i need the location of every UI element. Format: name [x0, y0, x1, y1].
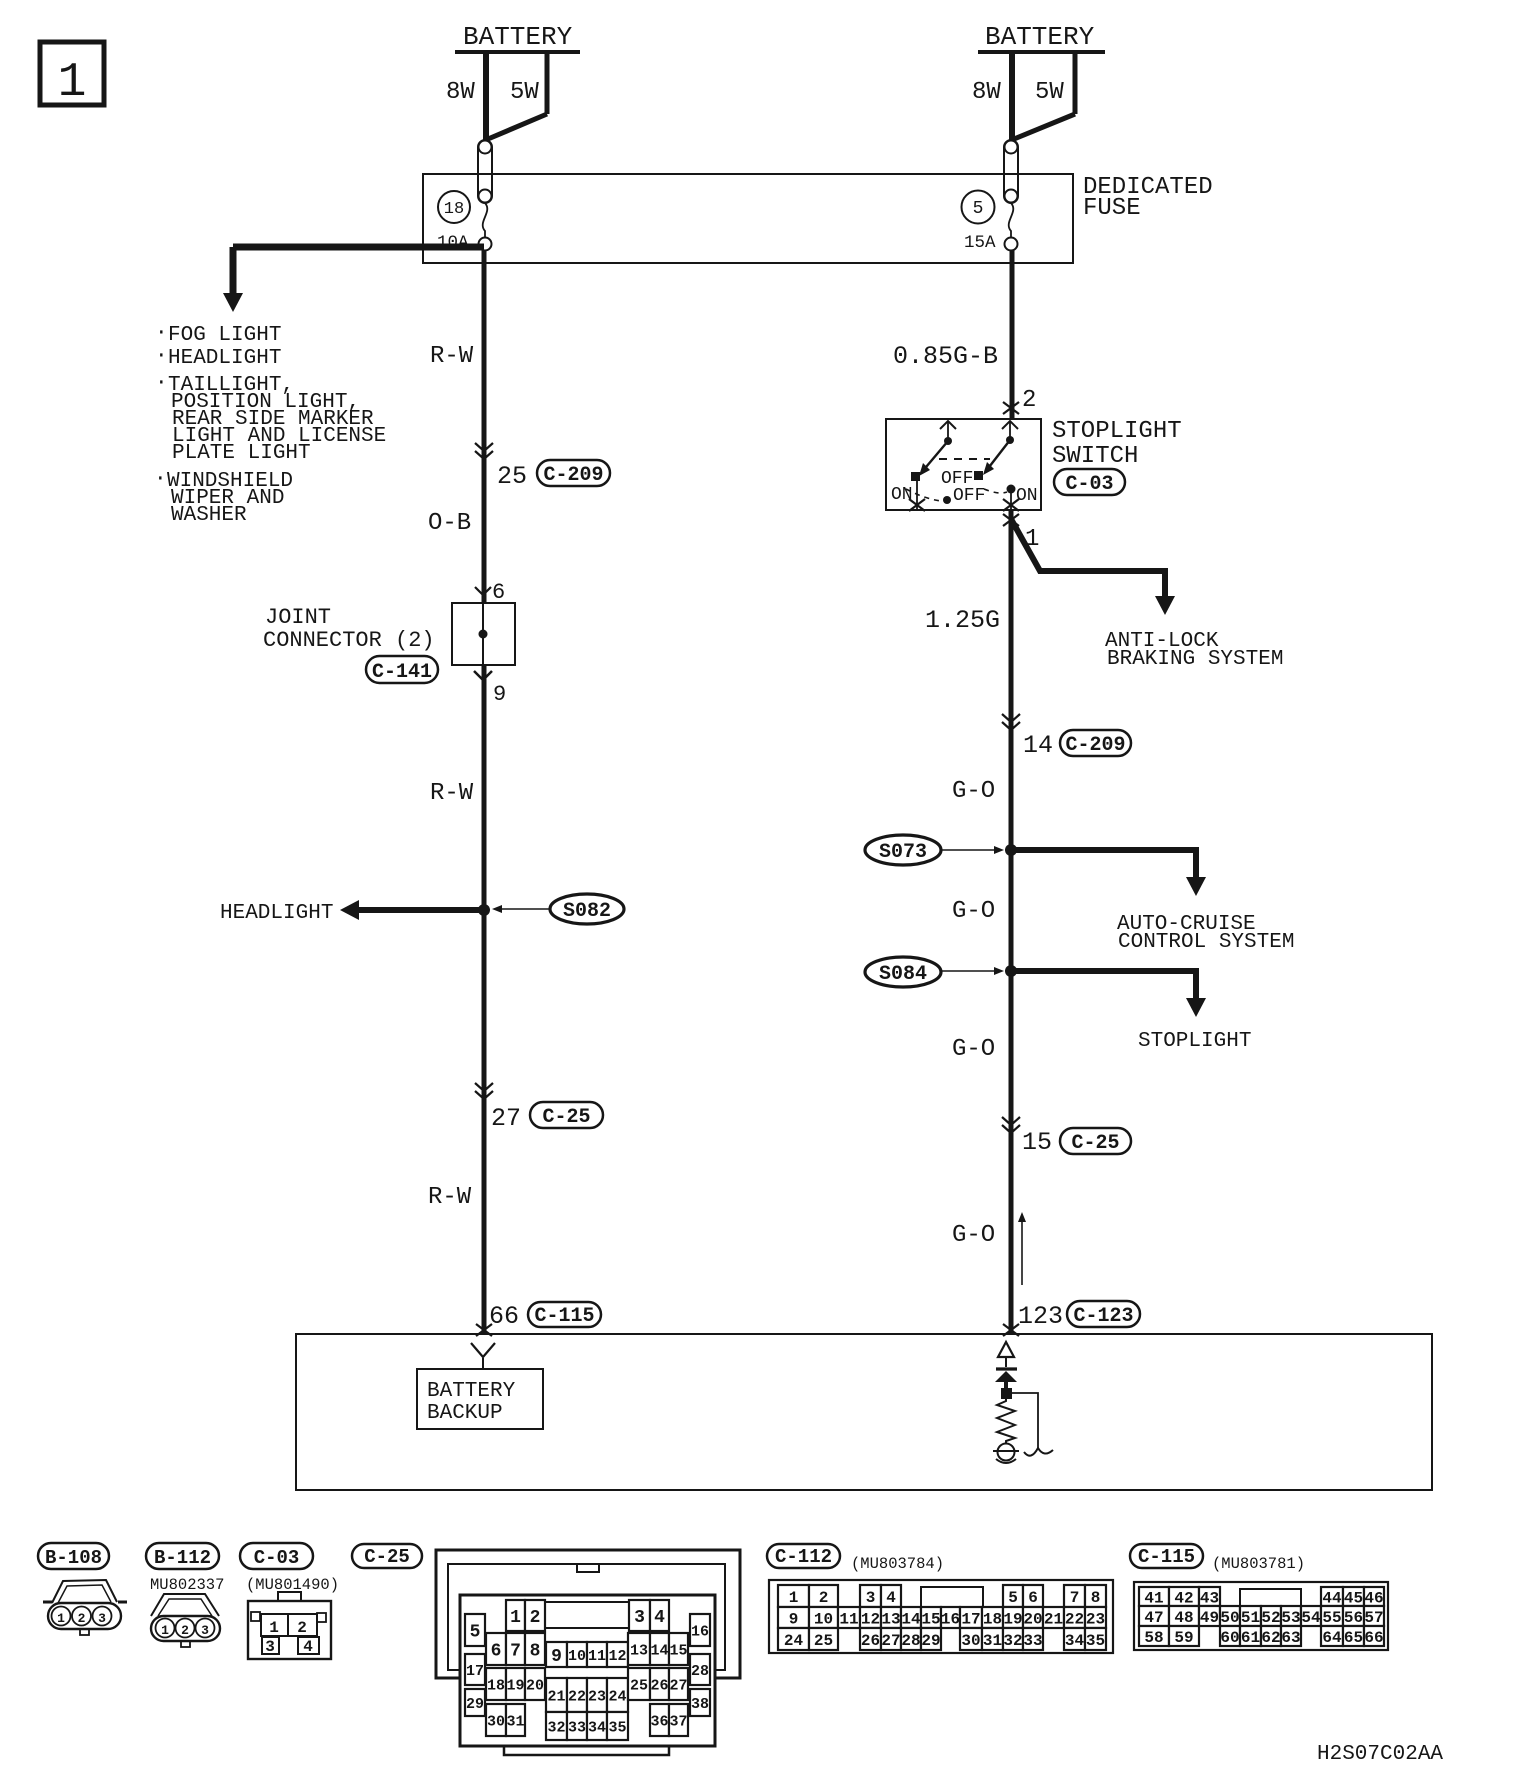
svg-text:25: 25 [814, 1632, 833, 1650]
left main wire R-W upper [482, 250, 487, 603]
svg-text:9: 9 [493, 682, 506, 707]
svg-text:9: 9 [789, 1610, 799, 1628]
svg-text:1: 1 [57, 1611, 65, 1626]
switch left pole contact [940, 421, 956, 429]
pointer arrow from S084 to splice [942, 970, 996, 972]
svg-text:CONTROL SYSTEM: CONTROL SYSTEM [1118, 931, 1294, 954]
svg-text:62: 62 [1261, 1629, 1280, 1647]
svg-text:14: 14 [1023, 731, 1053, 760]
svg-text:48: 48 [1174, 1609, 1193, 1627]
svg-text:45: 45 [1344, 1589, 1363, 1607]
C-25 pin 28 [690, 1654, 710, 1685]
right main wire 1.25G [1009, 510, 1014, 1334]
svg-text:17: 17 [466, 1663, 484, 1680]
switch right pole contact [1002, 421, 1018, 429]
svg-text:H2S07C02AA: H2S07C02AA [1317, 1743, 1443, 1766]
svg-text:15: 15 [1022, 1128, 1052, 1157]
right fusible link and fuse 5 element [1004, 140, 1018, 203]
control unit box [296, 1334, 1432, 1490]
dedicated fuse box [423, 174, 1073, 263]
direction arrow up on right wire [1021, 1220, 1023, 1285]
left 5W fusible-link wire [545, 52, 550, 114]
svg-text:37: 37 [669, 1713, 687, 1730]
svg-text:31: 31 [983, 1632, 1002, 1650]
input triangle at 123 [998, 1342, 1014, 1357]
resistor R1 [997, 1396, 1015, 1444]
svg-text:WASHER: WASHER [171, 504, 247, 527]
svg-text:8: 8 [530, 1641, 541, 1661]
svg-text:23: 23 [1086, 1610, 1105, 1628]
svg-text:14: 14 [650, 1642, 668, 1659]
svg-text:S082: S082 [563, 900, 611, 923]
branch wire to auto-cruise control system [1011, 850, 1196, 878]
svg-text:5: 5 [470, 1622, 481, 1642]
left battery bus bar [455, 50, 580, 54]
svg-text:8W: 8W [446, 79, 475, 106]
node junction dot [1001, 1388, 1012, 1399]
connector view C-112 grid [769, 1580, 1113, 1653]
svg-text:FUSE: FUSE [1083, 195, 1141, 222]
connector view C-25 body [460, 1595, 715, 1746]
svg-text:JOINT: JOINT [265, 605, 331, 630]
connector chevron 27 [475, 1083, 493, 1091]
svg-text:10: 10 [568, 1648, 586, 1665]
svg-text:3: 3 [265, 1638, 275, 1656]
svg-text:OFF: OFF [953, 486, 985, 506]
svg-text:27: 27 [881, 1632, 900, 1650]
svg-text:B-108: B-108 [45, 1547, 102, 1569]
svg-text:28: 28 [901, 1632, 920, 1650]
svg-text:FOG LIGHT: FOG LIGHT [168, 324, 281, 347]
connector fork into battery backup [471, 1343, 495, 1357]
svg-text:35: 35 [608, 1719, 626, 1736]
svg-text:11: 11 [588, 1648, 606, 1665]
svg-text:61: 61 [1241, 1629, 1260, 1647]
svg-text:51: 51 [1241, 1609, 1260, 1627]
svg-text:42: 42 [1174, 1589, 1193, 1607]
svg-text:31: 31 [506, 1713, 524, 1730]
svg-text:12: 12 [608, 1648, 626, 1665]
svg-text:12: 12 [861, 1610, 880, 1628]
svg-text:C-209: C-209 [543, 464, 603, 487]
svg-text:C-25: C-25 [542, 1106, 590, 1129]
switch middle position dot [943, 496, 951, 504]
svg-text:58: 58 [1144, 1629, 1163, 1647]
svg-text:66: 66 [1364, 1629, 1383, 1647]
svg-text:B-112: B-112 [154, 1547, 211, 1569]
svg-text:2: 2 [819, 1589, 829, 1607]
splice S084 junction dot [1005, 965, 1017, 977]
connector ref B-108 [38, 1543, 109, 1569]
svg-text:56: 56 [1344, 1609, 1363, 1627]
svg-text:15: 15 [921, 1610, 940, 1628]
svg-text:60: 60 [1220, 1629, 1239, 1647]
svg-text:34: 34 [588, 1719, 606, 1736]
svg-text:65: 65 [1344, 1629, 1363, 1647]
ground symbol [998, 1444, 1015, 1461]
svg-text:49: 49 [1200, 1609, 1219, 1627]
svg-text:28: 28 [691, 1663, 709, 1680]
svg-text:C-25: C-25 [364, 1546, 410, 1568]
svg-text:1: 1 [789, 1589, 799, 1607]
svg-text:55: 55 [1322, 1609, 1341, 1627]
svg-text:19: 19 [1003, 1610, 1022, 1628]
battery backup box [417, 1369, 543, 1429]
left fusible link and fuse 18 element [478, 140, 492, 203]
connector mark at 123 [1003, 1324, 1019, 1336]
svg-text:C-03: C-03 [254, 1547, 300, 1569]
switch right lower contact [1007, 485, 1016, 494]
svg-text:0.85G-B: 0.85G-B [893, 342, 998, 371]
C-25 pin 17 [465, 1654, 485, 1685]
svg-text:1: 1 [58, 56, 87, 110]
svg-text:ON: ON [1016, 486, 1038, 506]
svg-text:15A: 15A [964, 233, 996, 253]
fuse number 5 [962, 191, 995, 224]
connector chevron 15 [1002, 1117, 1020, 1125]
svg-text:7: 7 [510, 1641, 521, 1661]
stoplight switch box C-03 [886, 419, 1041, 510]
svg-text:53: 53 [1281, 1609, 1300, 1627]
svg-text:63: 63 [1281, 1629, 1300, 1647]
svg-text:18: 18 [487, 1677, 505, 1694]
svg-text:BATTERY: BATTERY [985, 22, 1095, 52]
svg-text:11: 11 [839, 1610, 858, 1628]
svg-text:13: 13 [630, 1642, 648, 1659]
branch wire to anti-lock braking system [1011, 519, 1165, 598]
svg-text:·: · [155, 322, 168, 345]
connector chevron 25 [475, 443, 493, 451]
svg-text:5W: 5W [510, 79, 539, 106]
switch mechanical dashed link [939, 458, 990, 460]
svg-text:4: 4 [654, 1608, 665, 1628]
svg-text:R-W: R-W [428, 1184, 472, 1211]
svg-text:8W: 8W [972, 79, 1001, 106]
left 8W fusible-link wire [483, 52, 489, 140]
svg-text:3: 3 [866, 1589, 876, 1607]
svg-text:22: 22 [568, 1688, 586, 1705]
wire branch from fuse 18 to light systems [233, 244, 484, 251]
svg-text:BATTERY: BATTERY [427, 1380, 516, 1403]
svg-text:3: 3 [634, 1608, 645, 1628]
svg-text:8: 8 [1091, 1589, 1101, 1607]
svg-text:SWITCH: SWITCH [1052, 443, 1138, 470]
connector ref C-209 right [1060, 730, 1131, 756]
svg-text:C-112: C-112 [775, 1546, 832, 1568]
svg-text:G-O: G-O [952, 898, 995, 925]
svg-text:34: 34 [1065, 1632, 1085, 1650]
connector mark at pin 1 [1003, 514, 1019, 526]
svg-text:16: 16 [691, 1623, 709, 1640]
splice S082 junction dot [478, 904, 490, 916]
connector ref C-03 view label [240, 1543, 313, 1569]
svg-text:6: 6 [491, 1641, 502, 1661]
svg-text:1: 1 [161, 1623, 169, 1638]
svg-text:24: 24 [784, 1632, 804, 1650]
svg-text:HEADLIGHT: HEADLIGHT [168, 347, 281, 370]
pin 9 out of joint connector [474, 671, 492, 680]
svg-text:6: 6 [492, 580, 505, 605]
svg-text:18: 18 [983, 1610, 1002, 1628]
svg-text:G-O: G-O [952, 1222, 995, 1249]
svg-text:36: 36 [650, 1713, 668, 1730]
svg-text:17: 17 [961, 1610, 980, 1628]
right battery bus bar [978, 50, 1105, 54]
svg-text:C-115: C-115 [534, 1305, 594, 1328]
switch right bottom mark [1003, 499, 1019, 511]
svg-text:57: 57 [1364, 1609, 1383, 1627]
svg-text:43: 43 [1200, 1589, 1219, 1607]
connector view C-25 shell [436, 1550, 740, 1678]
svg-text:25: 25 [630, 1677, 648, 1694]
svg-text:38: 38 [691, 1696, 709, 1713]
svg-text:50: 50 [1220, 1609, 1239, 1627]
svg-text:9: 9 [551, 1647, 562, 1667]
C-25 pin 29 [465, 1689, 485, 1716]
svg-text:2: 2 [1022, 387, 1036, 414]
connector mark at 66 [476, 1324, 492, 1336]
connector ref C-25 view label [352, 1544, 422, 1568]
svg-text:G-O: G-O [952, 1036, 995, 1063]
svg-text:33: 33 [568, 1719, 586, 1736]
svg-text:47: 47 [1144, 1609, 1163, 1627]
fuse number 18 [438, 191, 470, 223]
arrow to stoplight [1186, 998, 1206, 1017]
switch left bottom mark [909, 499, 925, 511]
svg-text:BATTERY: BATTERY [463, 22, 573, 52]
connector view B-112 [151, 1594, 219, 1616]
arrow to anti-lock braking system [1155, 596, 1175, 615]
pin 6 into joint connector [475, 587, 491, 595]
svg-text:18: 18 [444, 200, 464, 219]
svg-text:STOPLIGHT: STOPLIGHT [1138, 1030, 1251, 1053]
svg-text:O-B: O-B [428, 510, 471, 537]
svg-text:5: 5 [1008, 1589, 1018, 1607]
switch left arm [921, 441, 948, 473]
svg-text:32: 32 [1003, 1632, 1022, 1650]
svg-text:STOPLIGHT: STOPLIGHT [1052, 418, 1182, 445]
svg-text:2: 2 [297, 1619, 307, 1637]
svg-text:24: 24 [608, 1688, 626, 1705]
connector ref C-115 on left wire [528, 1302, 601, 1327]
svg-text:R-W: R-W [430, 780, 474, 807]
svg-text:BRAKING SYSTEM: BRAKING SYSTEM [1107, 648, 1283, 671]
svg-text:CONNECTOR (2): CONNECTOR (2) [263, 628, 435, 653]
right 5W fusible-link wire [1073, 52, 1078, 114]
connector view C-03 [278, 1592, 301, 1601]
C-25 pins row 18-27 [486, 1668, 506, 1700]
svg-text:C-123: C-123 [1073, 1305, 1133, 1328]
C-25 pins row 30-37 [486, 1704, 506, 1736]
svg-text:R-W: R-W [430, 343, 474, 370]
arrow to headlight [340, 900, 359, 920]
svg-text:·: · [155, 372, 168, 395]
C-25 pin 38 [690, 1689, 710, 1716]
svg-text:52: 52 [1261, 1609, 1280, 1627]
svg-text:22: 22 [1065, 1610, 1084, 1628]
svg-text:44: 44 [1322, 1589, 1342, 1607]
svg-text:2: 2 [530, 1608, 541, 1628]
svg-text:23: 23 [588, 1688, 606, 1705]
arrow to auto-cruise control system [1186, 877, 1206, 896]
svg-text:1.25G: 1.25G [925, 606, 1000, 635]
left main wire R-W lower [482, 665, 487, 1334]
branch wire to headlight [356, 907, 484, 913]
svg-text:41: 41 [1144, 1589, 1163, 1607]
svg-text:C-209: C-209 [1065, 734, 1125, 757]
svg-text:10: 10 [814, 1610, 833, 1628]
svg-text:20: 20 [526, 1677, 544, 1694]
connector ref C-25 on left wire [530, 1102, 603, 1128]
wire branch to chassis ground [1012, 1393, 1038, 1448]
svg-text:26: 26 [861, 1632, 880, 1650]
C-25 pins row 6-15 [486, 1633, 506, 1665]
C-25 pin 5 [465, 1614, 485, 1646]
svg-text:7: 7 [1070, 1589, 1080, 1607]
svg-text:4: 4 [886, 1589, 896, 1607]
pointer arrow from S082 to splice [500, 908, 549, 910]
joint connector (2) C-141 box [452, 603, 515, 665]
svg-text:33: 33 [1023, 1632, 1042, 1650]
connector ref C-209 left [537, 460, 610, 486]
svg-text:14: 14 [901, 1610, 921, 1628]
svg-text:C-141: C-141 [372, 661, 432, 684]
svg-text:1: 1 [510, 1608, 521, 1628]
svg-text:29: 29 [466, 1696, 484, 1713]
svg-text:2: 2 [78, 1611, 86, 1626]
svg-text:30: 30 [961, 1632, 980, 1650]
connector ref C-141 [366, 656, 438, 683]
svg-text:PLATE LIGHT: PLATE LIGHT [172, 442, 311, 465]
svg-text:G-O: G-O [952, 778, 995, 805]
svg-text:29: 29 [921, 1632, 940, 1650]
connector view B-108 [43, 1601, 52, 1604]
svg-text:59: 59 [1174, 1629, 1193, 1647]
svg-text:·: · [154, 468, 167, 491]
connector chevron 14 [1002, 714, 1020, 722]
svg-text:32: 32 [547, 1719, 565, 1736]
svg-text:C-25: C-25 [1071, 1132, 1119, 1155]
connector ref C-112 view label [767, 1544, 840, 1568]
svg-text:3: 3 [201, 1623, 209, 1638]
svg-text:19: 19 [506, 1677, 524, 1694]
C-25 pin 16 [690, 1614, 710, 1646]
svg-text:1: 1 [269, 1619, 279, 1637]
C-25 pins row 1-4 [506, 1600, 525, 1631]
svg-text:S084: S084 [879, 963, 927, 986]
svg-text:3: 3 [98, 1611, 106, 1626]
connector ref C-123 [1067, 1301, 1140, 1327]
svg-text:S073: S073 [879, 841, 927, 864]
svg-text:27: 27 [491, 1104, 521, 1133]
svg-text:(MU803784): (MU803784) [851, 1555, 944, 1573]
svg-text:15: 15 [669, 1642, 687, 1659]
svg-text:66: 66 [489, 1302, 519, 1331]
connector view C-115 grid [1134, 1582, 1388, 1650]
svg-text:20: 20 [1023, 1610, 1042, 1628]
right main wire 0.85G-B [1010, 250, 1015, 419]
svg-text:HEADLIGHT: HEADLIGHT [220, 902, 333, 925]
svg-text:5: 5 [973, 199, 984, 219]
svg-text:MU802337: MU802337 [150, 1576, 224, 1594]
diode D1 [996, 1367, 1017, 1370]
connector ref B-112 [146, 1543, 219, 1569]
svg-text:64: 64 [1322, 1629, 1342, 1647]
splice S073 junction dot [1005, 844, 1017, 856]
svg-text:123: 123 [1018, 1302, 1063, 1331]
svg-text:5W: 5W [1035, 79, 1064, 106]
svg-text:C-115: C-115 [1138, 1546, 1195, 1568]
connector ref C-03 [1054, 469, 1125, 495]
connector ref C-115 view label [1130, 1544, 1203, 1568]
right 8W fusible-link wire [1009, 52, 1015, 140]
svg-text:·: · [155, 345, 168, 368]
svg-text:30: 30 [487, 1713, 505, 1730]
connector mark at pin 2 [1003, 402, 1019, 414]
pointer arrow from S073 to splice [942, 849, 996, 851]
svg-text:46: 46 [1364, 1589, 1383, 1607]
page number box 1 [40, 42, 104, 105]
svg-text:2: 2 [181, 1623, 189, 1638]
svg-text:6: 6 [1028, 1589, 1038, 1607]
svg-text:26: 26 [650, 1677, 668, 1694]
svg-text:25: 25 [497, 462, 527, 491]
arrow to light systems [223, 293, 243, 312]
svg-text:BACKUP: BACKUP [427, 1402, 503, 1425]
connector ref C-25 right [1060, 1128, 1131, 1154]
svg-text:4: 4 [303, 1638, 313, 1656]
splice label S082 [550, 894, 624, 924]
svg-text:54: 54 [1301, 1609, 1321, 1627]
svg-text:21: 21 [547, 1688, 565, 1705]
svg-text:16: 16 [941, 1610, 960, 1628]
splice label S084 [865, 957, 941, 987]
svg-text:C-03: C-03 [1065, 473, 1113, 496]
svg-text:27: 27 [669, 1677, 687, 1694]
svg-text:35: 35 [1086, 1632, 1105, 1650]
splice label S073 [865, 835, 941, 865]
svg-text:13: 13 [881, 1610, 900, 1628]
svg-text:ON: ON [891, 485, 913, 505]
switch right arm [986, 440, 1010, 471]
svg-text:21: 21 [1044, 1610, 1063, 1628]
branch wire to stoplight [1011, 971, 1196, 999]
svg-text:(MU803781): (MU803781) [1212, 1555, 1305, 1573]
